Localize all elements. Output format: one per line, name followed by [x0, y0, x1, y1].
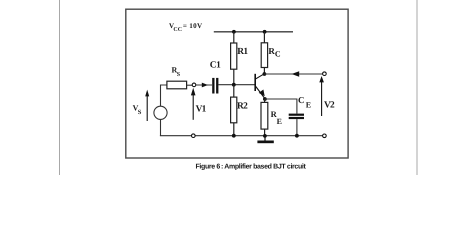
right page margin line — [416, 0, 418, 175]
arrow V1 — [191, 88, 196, 120]
node: junction dot RE bottom — [263, 134, 267, 138]
wire: emitter to RE — [264, 99, 266, 102]
node: junction dot at R1 top — [232, 30, 236, 34]
wire: VCC top rail — [214, 31, 293, 33]
node: input open terminal circle — [192, 83, 196, 87]
arrow: current direction into C1 — [202, 83, 208, 88]
arrow: output wire left-pointing arrow — [292, 71, 300, 77]
wire: base node to R2 — [233, 85, 235, 97]
svg-text:C: C — [298, 95, 305, 105]
source VS circle — [154, 106, 167, 119]
node: junction dot base/R1/R2 — [232, 83, 236, 87]
arrow: VS polarity arrow — [145, 90, 149, 121]
svg-text:R1: R1 — [237, 47, 248, 57]
wire: VS bottom to ground rail — [160, 119, 162, 135]
wire: R2 to ground rail — [233, 123, 235, 136]
transistor Q1 base bar — [254, 74, 256, 91]
node: emitter junction dot — [263, 97, 267, 101]
wire: VS top to RS — [161, 85, 168, 106]
svg-text:E: E — [306, 100, 311, 109]
left page margin line — [59, 0, 61, 175]
svg-text:C1: C1 — [210, 60, 221, 70]
svg-text:CC: CC — [173, 27, 182, 33]
node: junction dot at RC top — [263, 30, 267, 34]
ground symbol — [257, 136, 273, 144]
svg-text:S: S — [138, 109, 142, 116]
node: junction dot CE bottom — [295, 134, 299, 138]
wire: RE to ground rail — [264, 129, 266, 136]
svg-text:V1: V1 — [196, 105, 207, 115]
svg-text:= 10V: = 10V — [183, 22, 203, 30]
wire: rail to RC — [263, 32, 265, 43]
wire: CE to ground rail — [296, 119, 298, 136]
wire: R1 to base node — [233, 69, 235, 84]
wire: RC to collector node — [263, 68, 265, 75]
node: bottom input open terminal — [192, 134, 196, 138]
node: collector junction dot — [263, 72, 267, 76]
resistor R2 — [231, 97, 237, 123]
svg-text:C: C — [275, 50, 281, 59]
wire: emitter to CE — [265, 99, 297, 114]
arrow V2 — [319, 76, 324, 116]
wire: rail to R1 — [233, 32, 235, 43]
capacitor CE — [289, 114, 304, 120]
wire: C1 to base — [218, 84, 255, 86]
resistor R1 — [231, 43, 237, 69]
svg-text:E: E — [277, 117, 282, 126]
capacitor C1 — [212, 78, 218, 94]
transistor Q1 emitter line with arrow — [256, 87, 265, 99]
node: output open terminal top — [323, 72, 327, 76]
svg-text:R2: R2 — [237, 102, 248, 112]
svg-text:Figure 6 : Amplifier based BJT: Figure 6 : Amplifier based BJT circuit — [196, 163, 307, 171]
svg-text:V2: V2 — [324, 101, 335, 111]
resistor RE — [261, 102, 268, 129]
resistor RC — [261, 43, 267, 68]
wire: ground rail — [160, 135, 323, 137]
node: output open terminal bottom — [323, 134, 327, 138]
circuit frame border — [126, 9, 348, 158]
transistor Q1 collector line — [256, 74, 265, 79]
resistor RS — [167, 81, 187, 89]
wire: input node to C1 with right arrow — [195, 84, 212, 86]
wire: RS to input node — [187, 84, 193, 86]
wire: collector to output terminal — [264, 73, 322, 75]
node: junction dot R2 bottom — [232, 134, 236, 138]
